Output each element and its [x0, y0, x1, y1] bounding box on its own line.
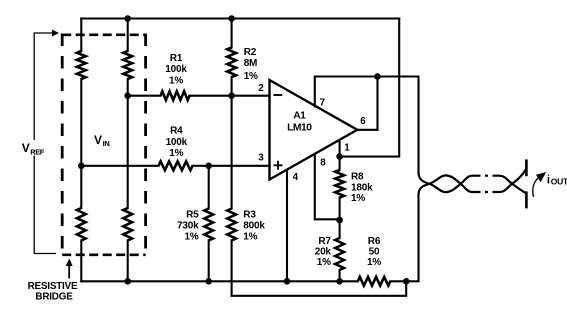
svg-text:1%: 1%: [169, 148, 183, 159]
svg-text:R3: R3: [243, 209, 256, 220]
svg-text:R6: R6: [368, 236, 381, 247]
svg-text:RESISTIVE: RESISTIVE: [28, 281, 78, 292]
svg-text:REF: REF: [30, 147, 45, 156]
svg-text:IN: IN: [103, 139, 110, 148]
svg-text:1%: 1%: [169, 75, 183, 86]
svg-text:1%: 1%: [367, 257, 381, 268]
svg-text:R4: R4: [170, 126, 183, 137]
svg-text:3: 3: [258, 153, 264, 164]
svg-text:OUT: OUT: [551, 177, 567, 187]
svg-text:2: 2: [258, 83, 264, 94]
svg-text:V: V: [94, 133, 102, 147]
svg-text:180k: 180k: [351, 182, 373, 193]
svg-text:R8: R8: [351, 172, 364, 183]
svg-text:8: 8: [320, 158, 326, 169]
svg-text:A1: A1: [293, 111, 306, 122]
svg-text:R7: R7: [318, 236, 331, 247]
svg-text:i: i: [547, 175, 550, 187]
svg-text:730k: 730k: [177, 220, 199, 231]
svg-text:LM10: LM10: [287, 123, 312, 134]
svg-text:100k: 100k: [166, 137, 188, 148]
svg-text:100k: 100k: [165, 64, 187, 75]
svg-text:4: 4: [293, 172, 299, 183]
svg-text:7: 7: [320, 98, 326, 109]
svg-text:V: V: [22, 141, 30, 155]
svg-text:1%: 1%: [317, 257, 331, 268]
svg-text:1%: 1%: [351, 193, 365, 204]
svg-text:1%: 1%: [184, 232, 198, 243]
svg-text:1%: 1%: [244, 71, 258, 82]
svg-text:R1: R1: [170, 53, 183, 64]
svg-text:R5: R5: [186, 209, 199, 220]
svg-text:1: 1: [344, 143, 350, 154]
svg-text:R2: R2: [244, 47, 257, 58]
svg-text:800k: 800k: [243, 220, 265, 231]
svg-text:8M: 8M: [244, 58, 258, 69]
svg-text:BRIDGE: BRIDGE: [35, 292, 73, 303]
svg-text:6: 6: [360, 116, 366, 127]
svg-text:1%: 1%: [243, 232, 257, 243]
